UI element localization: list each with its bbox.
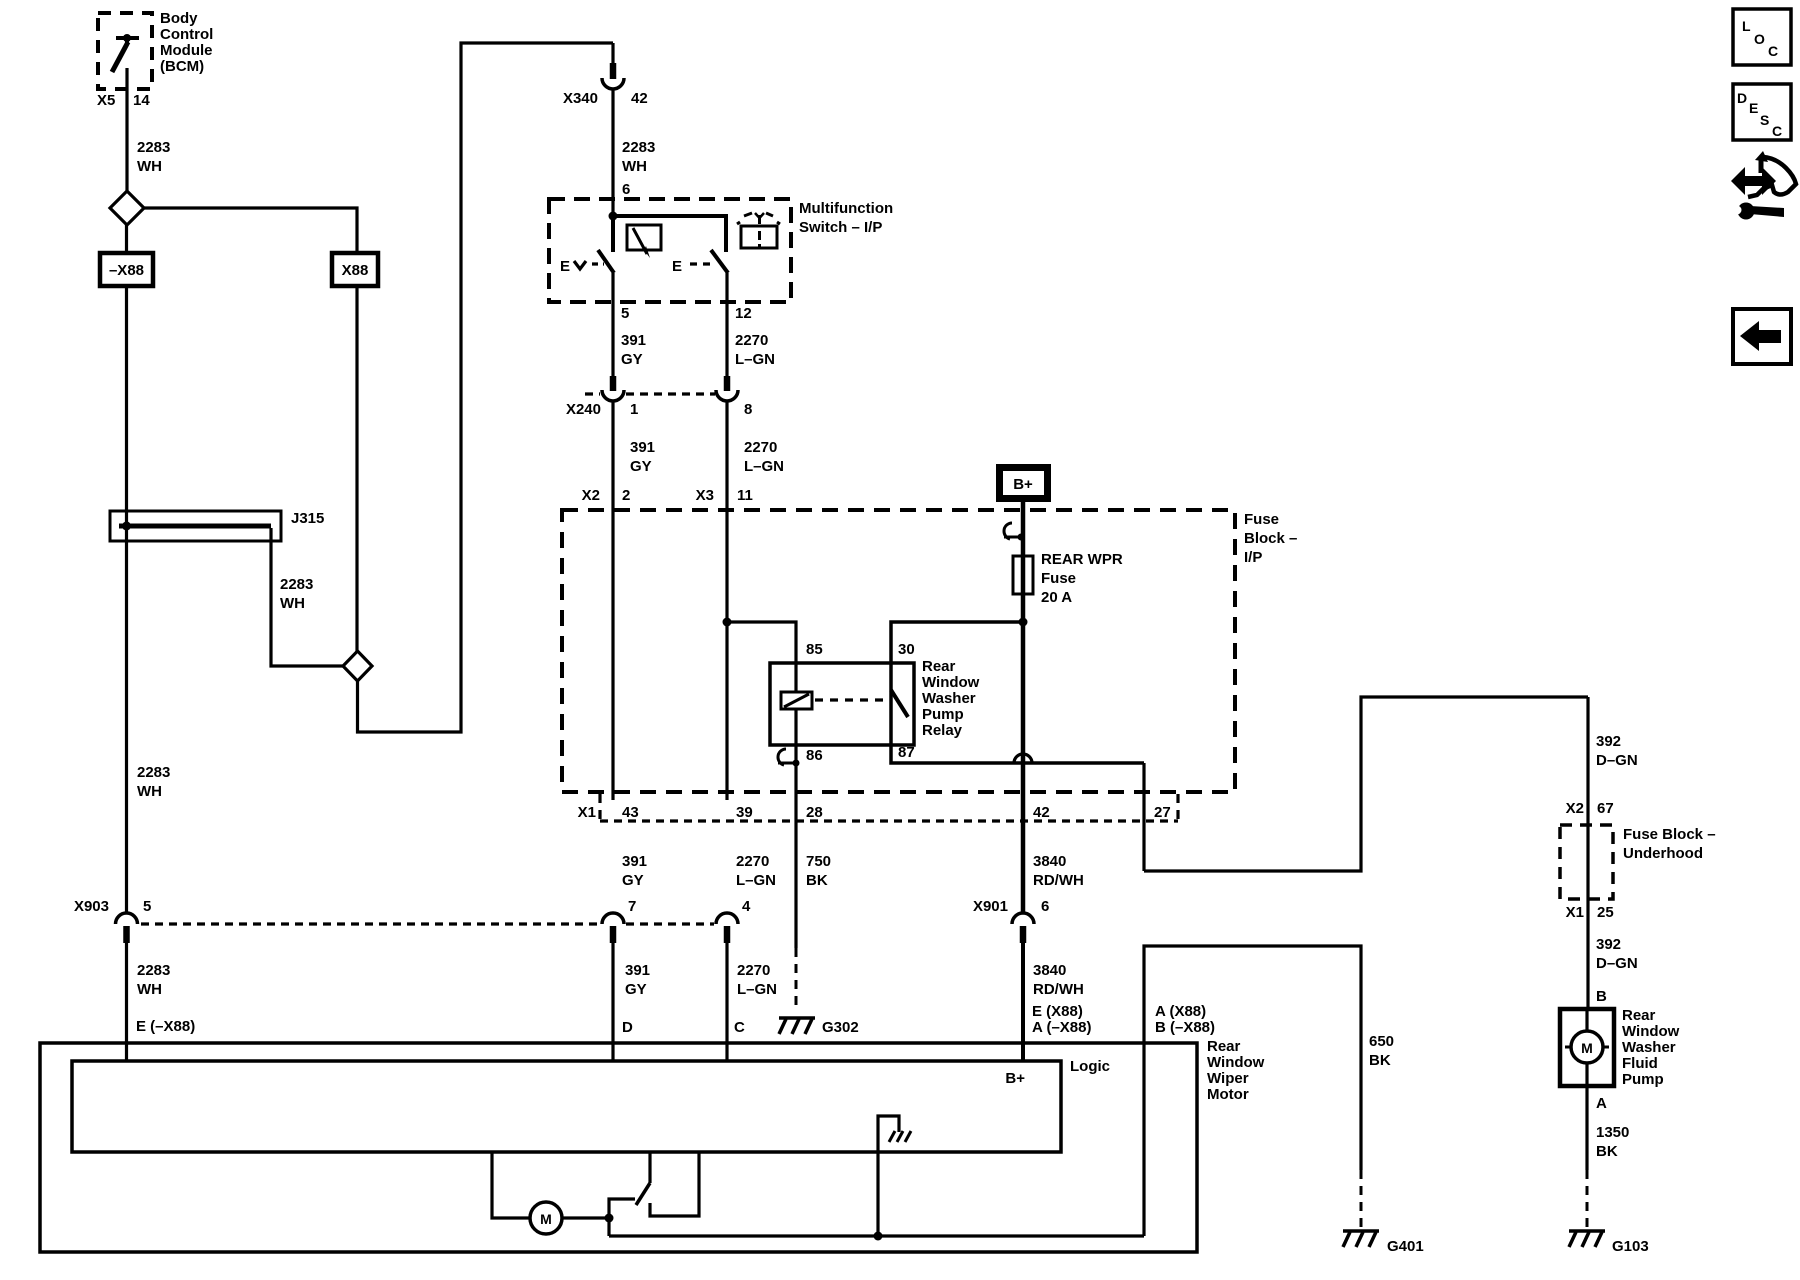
- labels X2 67: [1566, 800, 1614, 817]
- wires into X240: [611, 302, 614, 376]
- svg-text:X340: X340: [563, 90, 598, 107]
- label 2270 L-GN (third): [736, 853, 776, 889]
- svg-text:B+: B+: [1005, 1070, 1025, 1087]
- label 392 D-GN (upper): [1596, 733, 1638, 769]
- wiper motor box: [40, 1043, 1197, 1252]
- svg-text:A (–X88): A (–X88): [1032, 1019, 1091, 1036]
- wire park node to case bus: [607, 1218, 610, 1236]
- pin X5 14 labels: [97, 92, 150, 109]
- svg-text:2: 2: [622, 487, 630, 504]
- node ground junction: [874, 1232, 883, 1241]
- label 2270 L-GN (upper): [735, 332, 775, 368]
- svg-text:3840: 3840: [1033, 962, 1066, 979]
- svg-text:391: 391: [625, 962, 650, 979]
- svg-text:2270: 2270: [736, 853, 769, 870]
- svg-text:X2: X2: [1566, 800, 1584, 817]
- svg-text:27: 27: [1154, 804, 1171, 821]
- svg-text:WH: WH: [280, 595, 305, 612]
- label 750 BK: [806, 853, 831, 889]
- svg-text:Logic: Logic: [1070, 1058, 1110, 1075]
- wire pump ground: [1585, 1086, 1588, 1170]
- svg-text:2270: 2270: [737, 962, 770, 979]
- label 392 D-GN (lower): [1596, 936, 1638, 972]
- svg-text:Fuse Block –: Fuse Block –: [1623, 826, 1716, 843]
- svg-text:X240: X240: [566, 401, 601, 418]
- label 391 GY (second): [630, 439, 655, 475]
- svg-text:E (–X88): E (–X88): [136, 1018, 195, 1035]
- relay switch box: [891, 622, 1144, 763]
- icon connector-view arrows and wrench: [1731, 151, 1796, 220]
- ground G302 symbol: [779, 1018, 859, 1036]
- svg-text:B+: B+: [1013, 476, 1033, 493]
- icon DESC box: [1733, 84, 1791, 140]
- svg-text:L–GN: L–GN: [735, 351, 775, 368]
- svg-text:Body: Body: [160, 10, 198, 27]
- svg-text:Rear: Rear: [1622, 1007, 1656, 1024]
- svg-text:2283: 2283: [137, 764, 170, 781]
- svg-text:X3: X3: [696, 487, 714, 504]
- module U-BCM dashed box: [98, 13, 152, 89]
- svg-text:L–GN: L–GN: [736, 872, 776, 889]
- connector X240 pin 8: [716, 376, 738, 401]
- svg-text:391: 391: [621, 332, 646, 349]
- svg-text:5: 5: [621, 305, 629, 322]
- label Multifunction Switch - I/P: [799, 200, 893, 236]
- svg-text:6: 6: [1041, 898, 1049, 915]
- svg-text:20 A: 20 A: [1041, 589, 1072, 606]
- label 1350 BK: [1596, 1124, 1629, 1160]
- wire 2283 WH from BCM: [125, 68, 128, 192]
- svg-text:Underhood: Underhood: [1623, 845, 1703, 862]
- connector X240 pin 1: [602, 376, 624, 401]
- X1 row bracket left: [598, 794, 601, 826]
- svg-text:L–GN: L–GN: [737, 981, 777, 998]
- park switch stub A: [648, 1152, 651, 1183]
- label 2283 WH (bottom): [137, 962, 170, 998]
- svg-text:E (X88): E (X88): [1032, 1003, 1083, 1020]
- svg-text:391: 391: [630, 439, 655, 456]
- svg-text:6: 6: [622, 181, 630, 198]
- svg-text:J315: J315: [291, 510, 324, 527]
- X1 row dashed line: [600, 819, 1178, 822]
- wire left main (-X88 down to X903): [125, 225, 128, 253]
- svg-text:11: 11: [737, 487, 753, 504]
- motor M symbol: [530, 1202, 562, 1234]
- svg-text:Rear: Rear: [922, 658, 956, 675]
- relay name text: [922, 658, 980, 739]
- wire M to park switch node: [562, 1216, 609, 1219]
- svg-text:X1: X1: [578, 804, 596, 821]
- node junction in MF switch: [609, 212, 618, 221]
- wiper gauge symbol: [627, 225, 661, 258]
- svg-text:43: 43: [622, 804, 639, 821]
- splice diamond S1: [110, 191, 144, 225]
- relay K1 coil: [781, 663, 812, 763]
- svg-text:B: B: [1596, 988, 1607, 1005]
- labels X1 43 39 28 42 27: [578, 804, 1171, 821]
- fuse block underhood dashed box: [1560, 825, 1613, 899]
- svg-text:Switch – I/P: Switch – I/P: [799, 219, 882, 236]
- svg-text:GY: GY: [625, 981, 647, 998]
- labels X240 1 8: [566, 401, 752, 418]
- X903 row dashed line: [141, 922, 714, 925]
- svg-text:67: 67: [1597, 800, 1614, 817]
- svg-text:Fluid: Fluid: [1622, 1055, 1658, 1072]
- svg-text:Fuse: Fuse: [1244, 511, 1279, 528]
- svg-text:A (X88): A (X88): [1155, 1003, 1206, 1020]
- fuse F1 REAR WPR 20A: [1013, 556, 1033, 594]
- svg-text:1: 1: [630, 401, 638, 418]
- wire into fuse block underhood: [1586, 697, 1589, 1009]
- battery feed B+ box: [1000, 468, 1048, 499]
- ground G103 dashed drop: [1586, 1170, 1589, 1228]
- X1 row bracket right: [1176, 794, 1179, 826]
- logic box: [72, 1058, 1110, 1152]
- label 3840 RD/WH (upper): [1033, 853, 1084, 889]
- svg-text:X1: X1: [1566, 904, 1584, 921]
- svg-text:D: D: [1737, 90, 1747, 106]
- svg-text:12: 12: [735, 305, 752, 322]
- ground G103 symbol: [1569, 1231, 1649, 1255]
- pin labels 85 30: [806, 641, 915, 658]
- svg-text:X903: X903: [74, 898, 109, 915]
- labels X1 25: [1566, 904, 1614, 921]
- svg-text:–X88: –X88: [109, 262, 144, 279]
- svg-text:Window: Window: [922, 674, 980, 691]
- wire 87 down (3840): [1021, 626, 1026, 913]
- svg-text:392: 392: [1596, 733, 1621, 750]
- svg-text:S: S: [1760, 112, 1769, 128]
- svg-text:750: 750: [806, 853, 831, 870]
- svg-text:D–GN: D–GN: [1596, 752, 1638, 769]
- svg-text:Washer: Washer: [1622, 1039, 1676, 1056]
- svg-text:Multifunction: Multifunction: [799, 200, 893, 217]
- connector X901 pin 6: [973, 898, 1049, 943]
- svg-text:2283: 2283: [137, 962, 170, 979]
- fuse clip: [1004, 523, 1025, 541]
- wire MF internal bus: [613, 216, 726, 252]
- svg-text:Relay: Relay: [922, 722, 963, 739]
- label Rear Window Washer Fluid Pump: [1622, 1007, 1680, 1088]
- svg-text:14: 14: [133, 92, 150, 109]
- washer fluid symbol: [737, 213, 780, 248]
- label 2283 WH (left lower): [137, 764, 170, 800]
- wire diamond to X88 branch: [144, 208, 357, 253]
- connector box -X88: [100, 253, 153, 286]
- svg-text:I/P: I/P: [1244, 549, 1262, 566]
- label 650 BK: [1369, 1033, 1394, 1069]
- wire logic to motor M: [492, 1152, 530, 1218]
- svg-text:GY: GY: [621, 351, 643, 368]
- svg-text:87: 87: [898, 744, 915, 761]
- ground G302 dashed drop: [795, 948, 798, 1012]
- svg-text:39: 39: [736, 804, 753, 821]
- label 2283 WH (top left): [137, 139, 170, 175]
- splice diamond S2: [343, 651, 372, 681]
- svg-text:WH: WH: [137, 783, 162, 800]
- wire to relay coil 85: [727, 622, 796, 663]
- wires into wiper motor: [125, 943, 128, 1061]
- wire motor ground bridge to G401: [1144, 946, 1361, 1170]
- svg-text:2270: 2270: [744, 439, 777, 456]
- svg-text:392: 392: [1596, 936, 1621, 953]
- svg-text:WH: WH: [137, 158, 162, 175]
- svg-text:C: C: [734, 1019, 745, 1036]
- wire S2 riser to top: [358, 43, 614, 732]
- svg-text:B (–X88): B (–X88): [1155, 1019, 1215, 1036]
- relay switch blade: [891, 690, 908, 717]
- connector pin 4: [716, 898, 751, 943]
- svg-text:WH: WH: [622, 158, 647, 175]
- connector pin 7: [602, 898, 636, 943]
- svg-text:42: 42: [631, 90, 648, 107]
- ground G401 dashed drop: [1360, 1170, 1363, 1227]
- svg-text:25: 25: [1597, 904, 1614, 921]
- svg-text:M: M: [540, 1211, 552, 1227]
- motor pin letters: [136, 1003, 1215, 1036]
- svg-text:RD/WH: RD/WH: [1033, 981, 1084, 998]
- svg-text:G302: G302: [822, 1019, 859, 1036]
- svg-text:28: 28: [806, 804, 823, 821]
- switch SW1 wash (E arrow): [560, 250, 614, 302]
- pump motor M: [1565, 1009, 1609, 1086]
- wire X88 to diamond S2: [355, 286, 358, 652]
- svg-text:L–GN: L–GN: [744, 458, 784, 475]
- label Rear Window Wiper Motor: [1207, 1038, 1265, 1103]
- svg-text:391: 391: [622, 853, 647, 870]
- svg-text:8: 8: [744, 401, 752, 418]
- clip at coil ground pin 86: [778, 523, 1012, 767]
- pin labels 86 87: [806, 744, 915, 764]
- BCM internal driver switch: [112, 34, 139, 72]
- pin labels 5 / 12: [621, 305, 752, 322]
- svg-text:1350: 1350: [1596, 1124, 1629, 1141]
- park switch blade: [636, 1183, 650, 1205]
- relay actuation dashed link: [815, 698, 889, 701]
- relay coil box: [770, 663, 914, 745]
- svg-text:D–GN: D–GN: [1596, 955, 1638, 972]
- svg-text:X901: X901: [973, 898, 1008, 915]
- svg-text:G401: G401: [1387, 1238, 1424, 1255]
- node junction fuse output: [1019, 618, 1028, 627]
- svg-text:86: 86: [806, 747, 823, 764]
- svg-text:2283: 2283: [280, 576, 313, 593]
- svg-text:GY: GY: [622, 872, 644, 889]
- switch SW2 (E dashes): [672, 250, 728, 302]
- X240 connector row dashes: [585, 392, 715, 395]
- svg-text:85: 85: [806, 641, 823, 658]
- svg-text:Motor: Motor: [1207, 1086, 1249, 1103]
- svg-text:BK: BK: [806, 872, 828, 889]
- svg-text:Pump: Pump: [1622, 1071, 1664, 1088]
- label Fuse Block - Underhood: [1623, 826, 1716, 862]
- svg-text:5: 5: [143, 898, 151, 915]
- svg-text:M: M: [1581, 1040, 1593, 1056]
- svg-text:Rear: Rear: [1207, 1038, 1241, 1055]
- svg-text:Window: Window: [1207, 1054, 1265, 1071]
- svg-text:Module: Module: [160, 42, 213, 59]
- svg-text:E: E: [1749, 100, 1758, 116]
- svg-text:2270: 2270: [735, 332, 768, 349]
- svg-text:E: E: [672, 258, 682, 275]
- wire 87 to pin 27: [1142, 763, 1145, 871]
- svg-text:Wiper: Wiper: [1207, 1070, 1249, 1087]
- svg-text:3840: 3840: [1033, 853, 1066, 870]
- label 391 GY (upper): [621, 332, 646, 368]
- svg-text:L: L: [1742, 18, 1751, 34]
- svg-text:Fuse: Fuse: [1041, 570, 1076, 587]
- label Fuse Block - I/P: [1244, 511, 1297, 566]
- svg-text:BK: BK: [1596, 1143, 1618, 1160]
- multifunction switch dashed box: [549, 199, 791, 302]
- case ground bus wire: [609, 1234, 1144, 1237]
- BCM label text: [160, 10, 213, 75]
- wire B+ to fuse: [1021, 498, 1026, 622]
- connector X340 pin 42: [563, 43, 648, 107]
- svg-text:X88: X88: [342, 262, 369, 279]
- svg-text:O: O: [1754, 31, 1765, 47]
- bump where 87 wire exits relay box: [1014, 754, 1032, 763]
- svg-text:42: 42: [1033, 804, 1050, 821]
- label 3840 RD/WH (bottom): [1033, 962, 1084, 998]
- label 2270 L-GN (bottom): [737, 962, 777, 998]
- splice J315 box: [110, 511, 281, 541]
- ground G401 symbol: [1343, 1231, 1424, 1255]
- pump box: [1560, 1009, 1614, 1086]
- svg-text:(BCM): (BCM): [160, 58, 204, 75]
- icon LOC box: [1733, 9, 1791, 65]
- svg-text:REAR WPR: REAR WPR: [1041, 551, 1123, 568]
- svg-text:X2: X2: [582, 487, 600, 504]
- fuse block I/P dashed box: [562, 510, 1235, 792]
- svg-text:Window: Window: [1622, 1023, 1680, 1040]
- wire pin27 U-path to underhood: [1144, 697, 1588, 871]
- connector X903 pin 5: [74, 898, 151, 943]
- svg-text:7: 7: [628, 898, 636, 915]
- wire 750 BK coil ground: [794, 763, 797, 948]
- svg-text:Control: Control: [160, 26, 213, 43]
- svg-text:E: E: [560, 258, 570, 275]
- fuse label: [1041, 551, 1123, 606]
- label 391 GY (bottom): [625, 962, 650, 998]
- label 391 GY (third): [622, 853, 647, 889]
- svg-text:4: 4: [742, 898, 751, 915]
- wire motor B terminal: [1142, 1043, 1145, 1236]
- wire 2283 WH into MF switch: [611, 89, 614, 216]
- svg-text:G103: G103: [1612, 1238, 1649, 1255]
- svg-text:X5: X5: [97, 92, 115, 109]
- label 2270 L-GN (second): [744, 439, 784, 475]
- svg-text:BK: BK: [1369, 1052, 1391, 1069]
- svg-text:2283: 2283: [137, 139, 170, 156]
- label 2283 WH (J315 branch): [280, 576, 313, 612]
- wires X240 to fuse block: [611, 401, 614, 800]
- svg-text:Washer: Washer: [922, 690, 976, 707]
- svg-text:GY: GY: [630, 458, 652, 475]
- svg-text:Block –: Block –: [1244, 530, 1297, 547]
- svg-text:WH: WH: [137, 981, 162, 998]
- svg-text:D: D: [622, 1019, 633, 1036]
- svg-text:C: C: [1768, 43, 1778, 59]
- svg-text:A: A: [1596, 1095, 1607, 1112]
- svg-text:Pump: Pump: [922, 706, 964, 723]
- label 2283 WH (center): [622, 139, 655, 175]
- svg-text:30: 30: [898, 641, 915, 658]
- svg-text:RD/WH: RD/WH: [1033, 872, 1084, 889]
- svg-text:650: 650: [1369, 1033, 1394, 1050]
- park switch pole: [609, 1199, 635, 1218]
- svg-text:C: C: [1772, 123, 1782, 139]
- icon back arrow box: [1733, 309, 1791, 364]
- labels X2 2 X3 11: [582, 487, 753, 504]
- connector box X88: [332, 253, 378, 286]
- internal ground hook: [878, 1116, 911, 1236]
- wire J315 to diamond S2: [271, 528, 343, 666]
- svg-text:2283: 2283: [622, 139, 655, 156]
- park switch contact L: [650, 1152, 699, 1216]
